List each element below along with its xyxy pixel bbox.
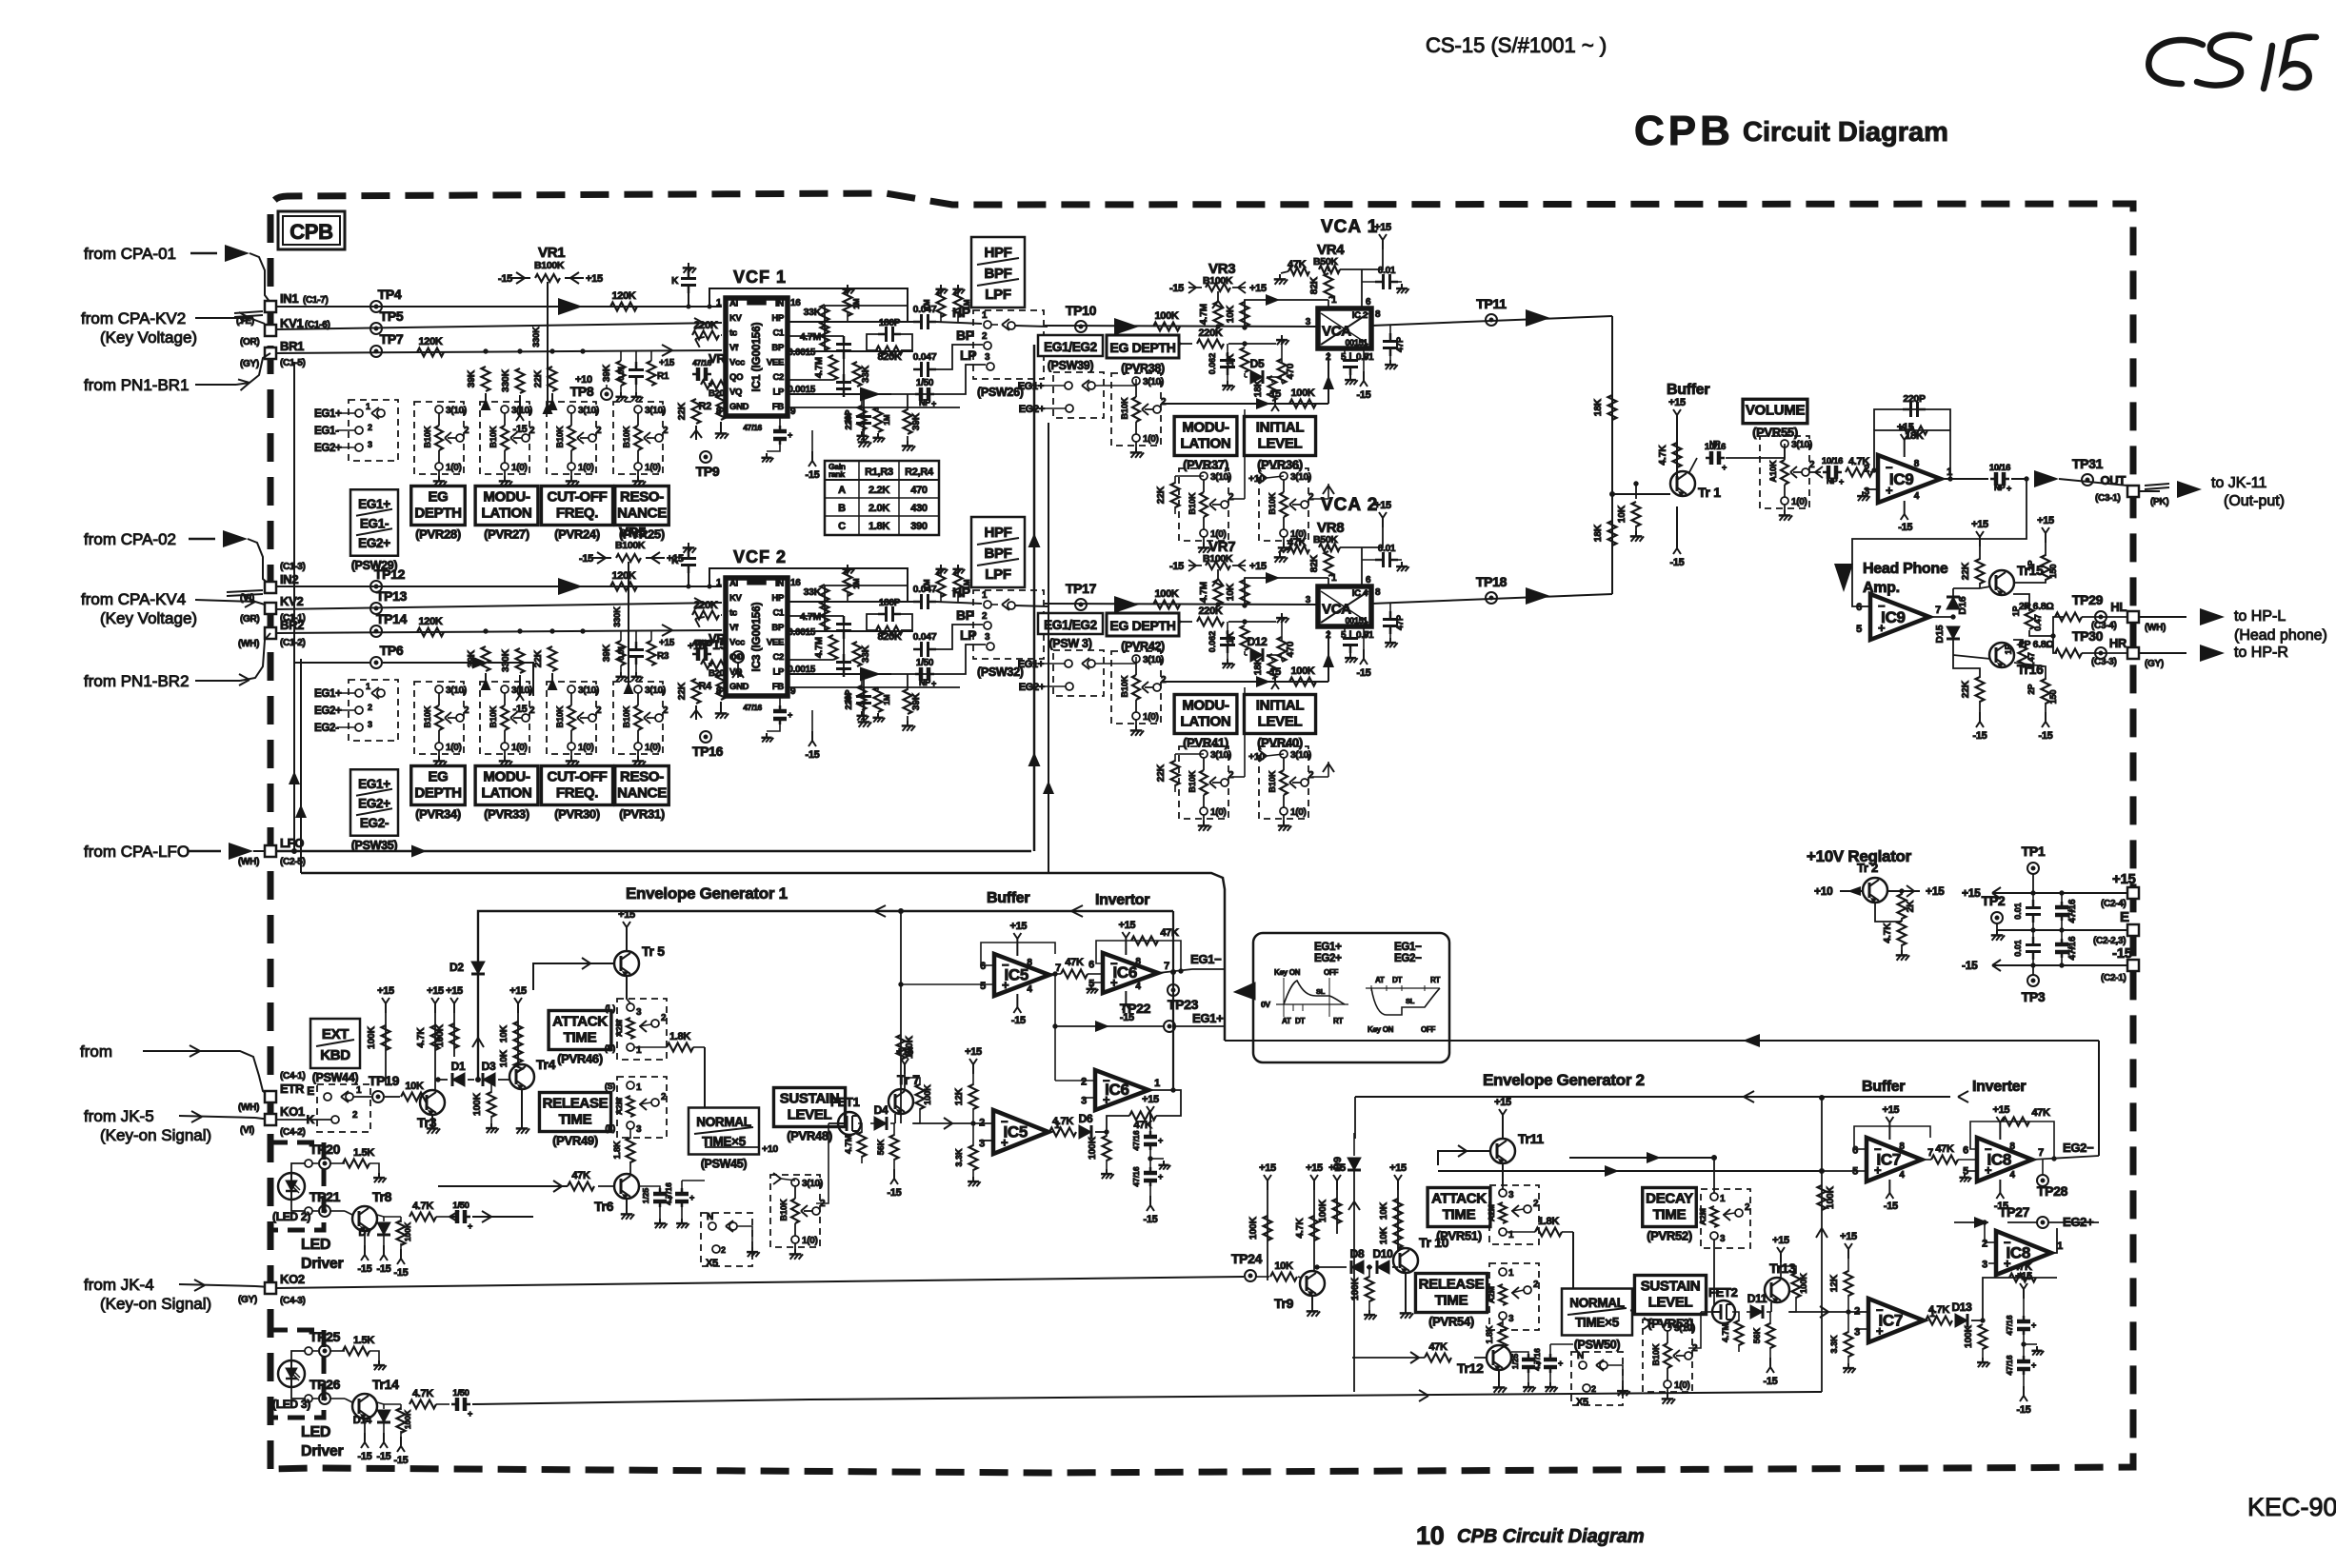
svg-text:B100K: B100K — [534, 260, 565, 271]
svg-text:CS-15 (S/#1001 ~ ): CS-15 (S/#1001 ~ ) — [1426, 33, 1607, 57]
svg-text:7: 7 — [1164, 961, 1169, 972]
capacitor 47/16 pair eg2 — [2005, 1271, 2044, 1416]
buffer invertor labels — [987, 890, 1149, 908]
svg-text:X5: X5 — [1576, 1397, 1588, 1408]
label box MODULATION (PVR37) — [1174, 417, 1237, 472]
svg-text:B10K: B10K — [622, 705, 631, 728]
svg-text:0.0015: 0.0015 — [788, 665, 816, 675]
svg-text:-15: -15 — [806, 749, 820, 761]
potentiometer PVR46 A2M — [605, 999, 667, 1060]
resistor 100K audio — [1153, 588, 1180, 609]
wire D9 top — [1353, 1133, 1355, 1139]
svg-text:IC3 (IG00156): IC3 (IG00156) — [751, 602, 763, 671]
svg-text:TP29: TP29 — [2072, 592, 2104, 607]
svg-text:DEPTH: DEPTH — [414, 506, 461, 522]
svg-text:EG2-: EG2- — [360, 816, 389, 830]
svg-text:2: 2 — [721, 1245, 726, 1255]
capacitor 220P — [844, 394, 871, 447]
svg-text:47K: 47K — [1065, 957, 1084, 968]
switch PSW44 — [276, 1084, 370, 1132]
op-amp IC8 a — [1959, 1104, 2044, 1212]
svg-text:R1,R3: R1,R3 — [865, 466, 893, 478]
svg-text:100K: 100K — [472, 1092, 483, 1116]
svg-text:C: C — [838, 521, 846, 532]
feedback loop wire VCF1 — [709, 288, 908, 322]
svg-text:Driver: Driver — [301, 1256, 344, 1272]
svg-text:EG1/EG2: EG1/EG2 — [1044, 618, 1097, 632]
input from PN1-BR1 — [84, 353, 270, 394]
capacitor 47P — [1383, 604, 1405, 647]
svg-text:3: 3 — [1508, 1190, 1514, 1201]
svg-text:4.7K: 4.7K — [1658, 445, 1668, 466]
connector BR2 — [238, 618, 306, 649]
diode D12 — [1245, 635, 1282, 662]
op-amp IC5 b — [973, 1110, 1060, 1154]
trimmer VR6 B200K — [692, 631, 736, 679]
resistor 1.8K attack — [634, 1031, 705, 1147]
input from JK-5 — [84, 1107, 270, 1144]
svg-text:RELEASE: RELEASE — [543, 1096, 609, 1112]
svg-text:100K: 100K — [1318, 1199, 1328, 1222]
svg-text:4.7K: 4.7K — [416, 1027, 427, 1048]
svg-text:39K: 39K — [467, 369, 477, 387]
resistor 39K vertical — [467, 646, 491, 690]
capacitor 47/16 VEE 2 — [743, 696, 819, 761]
svg-text:(PSW45): (PSW45) — [701, 1158, 748, 1171]
svg-text:+15: +15 — [2015, 1271, 2032, 1282]
svg-text:(S): (S) — [605, 1043, 615, 1053]
svg-text:1M: 1M — [852, 298, 861, 308]
svg-text:8: 8 — [716, 686, 722, 697]
svg-text:+: + — [788, 710, 792, 720]
wire VR5 wiper down — [612, 562, 634, 694]
capacitor 1/50 b — [436, 1388, 472, 1419]
svg-text:1(0): 1(0) — [802, 1236, 818, 1246]
svg-text:100K: 100K — [367, 1025, 377, 1049]
connector BR1 — [240, 339, 306, 369]
potentiometer PVR53 — [1643, 1320, 1698, 1404]
svg-text:−: − — [1886, 461, 1893, 475]
potentiometer PVR27 — [480, 402, 535, 486]
svg-text:R2,R4: R2,R4 — [905, 466, 934, 478]
svg-text:D7: D7 — [359, 1227, 372, 1239]
svg-text:−: − — [1002, 958, 1009, 972]
svg-text:+15: +15 — [1389, 1162, 1407, 1174]
resistor 3.3K — [954, 1123, 981, 1186]
svg-text:2P: 2P — [2027, 684, 2036, 694]
diode D8 — [1314, 1247, 1365, 1274]
svg-text:KO1: KO1 — [280, 1104, 305, 1119]
svg-text:KBD: KBD — [320, 1047, 350, 1063]
svg-text:(PSW44): (PSW44) — [312, 1071, 359, 1084]
capacitor 0.047 BP — [913, 351, 937, 377]
svg-text:(PSW 3): (PSW 3) — [1048, 637, 1091, 650]
svg-text:6: 6 — [1963, 1144, 1968, 1156]
svg-text:VCA: VCA — [1322, 324, 1351, 340]
svg-text:(Head phone): (Head phone) — [2234, 627, 2327, 644]
svg-text:1(0): 1(0) — [645, 463, 661, 473]
label box EG DEPTH — [350, 769, 398, 852]
IC9 ground pin3 — [1857, 489, 1878, 501]
svg-text:BP: BP — [956, 607, 974, 623]
svg-text:A10K: A10K — [1768, 460, 1778, 483]
wire LP to switch — [891, 347, 986, 394]
svg-text:-15: -15 — [377, 1451, 391, 1462]
test point TP21 — [305, 1189, 345, 1217]
svg-text:3(10): 3(10) — [446, 406, 467, 416]
svg-text:R3: R3 — [657, 651, 669, 662]
CPB board label box — [278, 211, 345, 249]
svg-text:-15: -15 — [1962, 959, 1978, 972]
svg-text:220K: 220K — [693, 320, 717, 331]
potentiometer VR4 — [1274, 222, 1391, 308]
svg-text:TP3: TP3 — [2022, 989, 2046, 1004]
svg-text:2: 2 — [661, 1092, 667, 1102]
svg-text:-15: -15 — [1011, 1015, 1026, 1026]
resistor 47K buf2 — [1922, 1143, 1977, 1164]
svg-text:EG1+: EG1+ — [314, 408, 342, 420]
svg-text:(C1-2): (C1-2) — [280, 638, 306, 648]
svg-text:NORMAL: NORMAL — [1569, 1296, 1624, 1310]
svg-text:EG1+: EG1+ — [1314, 942, 1342, 953]
svg-text:TIME: TIME — [564, 1030, 597, 1046]
svg-text:FET2: FET2 — [1708, 1285, 1738, 1300]
svg-text:4.7K: 4.7K — [1295, 1218, 1306, 1239]
wire IC5b inputs — [973, 1123, 993, 1158]
svg-text:+: + — [1886, 484, 1893, 498]
capacitor 47/16 rail b — [2055, 930, 2078, 965]
svg-text:+15: +15 — [2037, 515, 2054, 526]
svg-text:+: + — [1158, 1172, 1163, 1181]
svg-text:3: 3 — [368, 720, 372, 729]
svg-text:Tr 2: Tr 2 — [1857, 861, 1878, 875]
resistor 39K out — [902, 394, 922, 451]
filter mode label box 2 — [971, 517, 1025, 587]
svg-text:(PVR36): (PVR36) — [1257, 458, 1303, 472]
capacitor 0.047 HP — [913, 584, 937, 609]
svg-text:Driver: Driver — [301, 1443, 344, 1459]
svg-text:4.7M: 4.7M — [814, 637, 825, 658]
svg-text:0.062: 0.062 — [1208, 353, 1217, 375]
wire EG return bus — [301, 873, 1225, 1041]
capacitor 180P — [867, 318, 912, 350]
svg-text:1M: 1M — [963, 579, 971, 589]
svg-text:(PVR40): (PVR40) — [1257, 736, 1303, 750]
svg-text:D12: D12 — [1247, 635, 1268, 648]
svg-text:120K: 120K — [418, 336, 442, 347]
svg-text:330K: 330K — [501, 648, 511, 672]
svg-text:EG DEPTH: EG DEPTH — [1109, 340, 1175, 355]
svg-text:INITIAL: INITIAL — [1256, 698, 1305, 714]
svg-text:+15: +15 — [667, 553, 684, 565]
buffer label — [1667, 382, 1709, 398]
diode D11 — [1747, 1292, 1771, 1319]
svg-text:3(10): 3(10) — [578, 685, 599, 696]
svg-text:0.01: 0.01 — [617, 645, 626, 661]
resistor 18K upper — [1593, 395, 1617, 420]
svg-text:-15: -15 — [1169, 561, 1184, 572]
svg-text:0.047: 0.047 — [913, 351, 937, 363]
svg-text:0.47: 0.47 — [2027, 652, 2036, 669]
svg-text:(OR): (OR) — [240, 337, 259, 347]
svg-text:RT: RT — [1430, 976, 1440, 984]
LED LED 2 — [272, 1163, 344, 1272]
resistor 100K d10 — [1350, 1267, 1377, 1320]
svg-text:BR2: BR2 — [280, 618, 304, 632]
diode D7 — [359, 1215, 391, 1275]
capacitor 1P0.47 R — [2004, 640, 2036, 672]
svg-text:47K: 47K — [571, 1170, 590, 1181]
input from CPA-KV2 — [81, 309, 265, 347]
svg-text:from PN1-BR1: from PN1-BR1 — [84, 376, 190, 394]
svg-text:EG1+: EG1+ — [1192, 1011, 1224, 1025]
svg-text:10: 10 — [1416, 1521, 1444, 1550]
EG2 right bus — [1225, 1034, 2099, 1156]
transistor Tr11 — [1438, 1097, 1544, 1184]
potentiometer PVR31 — [613, 682, 669, 766]
svg-text:4: 4 — [1914, 491, 1920, 502]
svg-text:-15: -15 — [358, 1263, 372, 1275]
svg-text:39K: 39K — [911, 692, 922, 710]
connector LFO — [238, 836, 306, 867]
svg-text:RT: RT — [1333, 1017, 1343, 1025]
svg-text:2: 2 — [1591, 1384, 1596, 1394]
test point TP3 — [2022, 965, 2046, 1004]
resistor 120K (IN line) — [610, 570, 637, 591]
svg-text:+: + — [931, 679, 936, 688]
input from CPA-KV4 — [81, 590, 265, 627]
capacitor 0.0015 — [788, 616, 851, 639]
svg-text:R1: R1 — [657, 371, 669, 382]
svg-text:1M: 1M — [883, 694, 891, 705]
svg-text:22K: 22K — [533, 369, 544, 387]
svg-text:-15: -15 — [1973, 730, 1987, 742]
svg-text:EG2−: EG2− — [1394, 953, 1422, 964]
LED driver dashed box LED 2 — [270, 1142, 324, 1230]
svg-text:B: B — [838, 503, 846, 514]
potentiometer PVR28 — [414, 402, 469, 486]
diode D3 — [468, 1060, 507, 1086]
potentiometer VR7 — [1169, 539, 1267, 572]
svg-text:(Key Voltage): (Key Voltage) — [100, 609, 197, 627]
svg-text:N: N — [707, 1212, 713, 1222]
svg-text:+15: +15 — [618, 909, 635, 921]
resistor 4.7M eg2 — [1721, 1312, 1744, 1352]
switch PSW 3 — [1018, 613, 1136, 696]
svg-text:+15: +15 — [659, 358, 675, 368]
label box DECAY TIME (PVR52) — [1643, 1188, 1697, 1243]
resistor 10K key — [401, 1081, 428, 1102]
resistor 33K b — [853, 642, 872, 666]
svg-text:82K: 82K — [1309, 276, 1320, 294]
svg-text:IN2: IN2 — [280, 572, 298, 586]
resistor 10K buffer — [1617, 482, 1644, 542]
svg-text:2: 2 — [1533, 1199, 1539, 1209]
svg-text:TP8: TP8 — [570, 384, 594, 399]
svg-text:4.7M: 4.7M — [1199, 304, 1209, 325]
resistor 10K VCA in — [1226, 578, 1249, 607]
svg-text:+10: +10 — [688, 641, 705, 652]
svg-text:47K: 47K — [1428, 1341, 1448, 1353]
resistor 2P150 lower — [2014, 663, 2058, 742]
resistor 33K — [804, 585, 829, 609]
svg-text:100K: 100K — [1964, 1324, 1974, 1348]
svg-text:DT: DT — [1295, 1017, 1305, 1025]
svg-text:NP: NP — [1709, 439, 1721, 448]
svg-text:-15: -15 — [377, 1263, 391, 1275]
svg-text:Key ON: Key ON — [1274, 968, 1301, 977]
resistor 1K — [1226, 344, 1249, 377]
envelope generator 1 label — [626, 884, 788, 903]
svg-text:330K: 330K — [531, 327, 541, 347]
svg-text:(GY): (GY) — [240, 359, 259, 369]
svg-text:D6: D6 — [1079, 1112, 1093, 1125]
svg-text:1.5K: 1.5K — [353, 1147, 374, 1159]
resistor 22K hp lower — [1953, 655, 1987, 742]
power rails EG1 — [367, 985, 527, 1087]
svg-text:+: + — [1722, 463, 1727, 472]
potentiometer PVR33 — [480, 682, 535, 766]
svg-text:430: 430 — [910, 503, 928, 514]
svg-text:tc: tc — [729, 328, 737, 339]
svg-text:2K: 2K — [1906, 900, 1916, 913]
arrow on audio line — [1114, 596, 1139, 613]
label box ATTACK TIME (PVR51) — [1428, 1188, 1490, 1243]
svg-text:33K: 33K — [861, 365, 871, 383]
svg-text:22K: 22K — [533, 649, 544, 667]
svg-text:10K: 10K — [1274, 1260, 1293, 1272]
svg-text:-15: -15 — [2017, 1404, 2031, 1416]
svg-text:22K: 22K — [677, 402, 688, 420]
label box RELEASE TIME (PVR54) — [1415, 1274, 1487, 1329]
connector +15 rail — [2101, 871, 2139, 909]
wire IC8b in drop — [1983, 1221, 1987, 1242]
test point TP8 — [570, 374, 612, 400]
svg-text:B10K: B10K — [555, 426, 565, 448]
svg-text:TP12: TP12 — [374, 566, 406, 582]
svg-text:-15: -15 — [1144, 1214, 1158, 1225]
svg-text:1: 1 — [982, 310, 988, 321]
svg-text:4.7K: 4.7K — [1052, 1116, 1073, 1127]
svg-text:1: 1 — [1508, 1268, 1514, 1279]
svg-text:(S): (S) — [605, 1082, 615, 1091]
EG graph curve positive — [1261, 968, 1348, 1025]
svg-text:820K: 820K — [877, 631, 901, 643]
svg-text:SL: SL — [1406, 997, 1415, 1005]
svg-text:2: 2 — [1308, 770, 1314, 781]
svg-text:0.01: 0.01 — [1356, 352, 1374, 363]
svg-text:+15: +15 — [2112, 871, 2136, 887]
svg-text:100K: 100K — [1826, 1185, 1836, 1209]
svg-text:220K: 220K — [693, 600, 717, 611]
input from PN1-BR2 — [84, 633, 270, 690]
svg-text:3: 3 — [1306, 595, 1311, 605]
svg-text:-15: -15 — [1884, 1201, 1898, 1212]
wire d6 up 47K — [1107, 1090, 1181, 1132]
filter IC IC1 — [716, 298, 801, 417]
svg-text:3: 3 — [1306, 317, 1311, 327]
svg-text:(PSW26): (PSW26) — [977, 386, 1024, 399]
svg-text:33K: 33K — [804, 586, 822, 598]
svg-text:1(0): 1(0) — [1674, 1380, 1690, 1391]
svg-text:8: 8 — [2009, 1141, 2015, 1152]
svg-text:39K: 39K — [602, 364, 612, 382]
svg-text:+15: +15 — [1259, 1162, 1276, 1174]
resistor 18K bias — [1253, 654, 1283, 704]
svg-text:100K: 100K — [403, 1221, 412, 1241]
svg-text:−: − — [1878, 599, 1886, 613]
svg-text:(C1-3): (C1-3) — [280, 562, 306, 572]
svg-text:-15: -15 — [1898, 522, 1912, 533]
svg-text:CPB: CPB — [1634, 108, 1734, 154]
switch PSW35 (EG select) — [314, 680, 398, 741]
svg-text:VOLUME: VOLUME — [1746, 403, 1806, 419]
resistor 100K d6 — [1088, 1132, 1114, 1179]
EG graph curve negative — [1366, 976, 1440, 1034]
EG2 top bus — [1355, 1091, 1968, 1139]
svg-text:10K: 10K — [1379, 1201, 1389, 1220]
svg-text:+15: +15 — [1009, 921, 1027, 932]
label box MODULATION (PVR41) — [1174, 695, 1237, 750]
wire IC9b loop — [1857, 605, 1870, 607]
svg-text:-15: -15 — [1267, 666, 1281, 678]
svg-text:LEVEL: LEVEL — [1258, 436, 1303, 452]
svg-text:(WH): (WH) — [238, 639, 259, 649]
resistor 1M pullups — [842, 565, 971, 723]
resistor 4.7M VCA in — [1199, 291, 1224, 328]
transistor Tr16 — [1953, 643, 2044, 677]
test point TP4 — [370, 287, 402, 312]
svg-text:(WH): (WH) — [2145, 623, 2166, 633]
capacitor 47/16 pair — [1131, 1094, 1170, 1225]
feedback loop wire VCF2 — [709, 568, 908, 602]
resistor 100K audio — [1153, 310, 1180, 331]
svg-text:VQ: VQ — [729, 387, 742, 398]
svg-text:0.062: 0.062 — [1208, 631, 1217, 653]
svg-text:4.7M: 4.7M — [814, 357, 825, 378]
capacitor 1/50 a — [436, 1201, 472, 1231]
svg-text:CPB Circuit Diagram: CPB Circuit Diagram — [1457, 1526, 1645, 1547]
svg-text:2: 2 — [1864, 464, 1869, 475]
svg-text:A2M: A2M — [1487, 1204, 1496, 1221]
svg-text:1.8K: 1.8K — [869, 521, 889, 532]
svg-text:18K: 18K — [1253, 657, 1264, 675]
resistor R4 — [699, 675, 729, 719]
svg-text:8: 8 — [1375, 309, 1381, 320]
wire pot feed PVR25 — [384, 412, 386, 414]
svg-text:330K: 330K — [501, 368, 511, 392]
capacitor 4.7/16 eg1 — [664, 1181, 705, 1228]
capacitor K — [671, 263, 696, 308]
svg-text:EG2+: EG2+ — [314, 705, 342, 717]
svg-text:B10K: B10K — [1651, 1343, 1661, 1366]
svg-text:1: 1 — [1947, 466, 1952, 478]
svg-text:1(0): 1(0) — [1143, 434, 1159, 445]
svg-text:EG2+: EG2+ — [314, 443, 342, 454]
svg-text:3: 3 — [636, 1007, 642, 1018]
resistor 220K (tc) — [692, 600, 722, 627]
svg-text:(C3-1): (C3-1) — [2095, 493, 2121, 504]
wire E rail — [1997, 928, 2127, 932]
svg-text:3: 3 — [1720, 1234, 1726, 1244]
svg-text:(PVR27): (PVR27) — [484, 527, 529, 542]
svg-text:3(10): 3(10) — [446, 685, 467, 696]
svg-text:MODU-: MODU- — [483, 489, 530, 506]
label box EG DEPTH 2 — [411, 766, 466, 822]
svg-text:2.0K: 2.0K — [869, 503, 889, 514]
svg-text:EG2+: EG2+ — [358, 796, 390, 810]
resistor 120K (IN line) — [610, 290, 637, 311]
